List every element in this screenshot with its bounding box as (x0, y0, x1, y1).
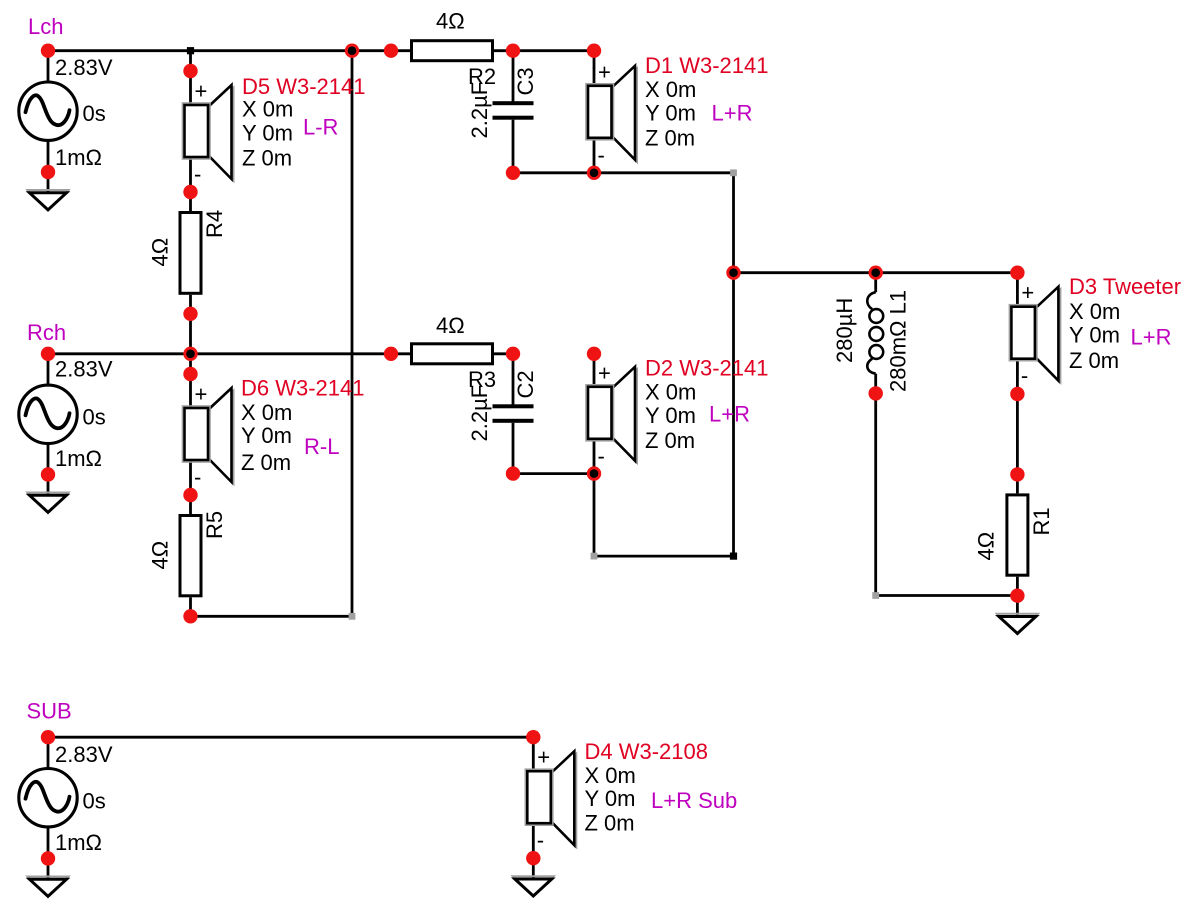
svg-text:+: + (598, 59, 611, 84)
wire D2 to bus bottom (594, 555, 734, 558)
capacitor C2 (493, 354, 534, 474)
svg-text:1mΩ: 1mΩ (55, 830, 102, 855)
svg-text:Y 0m: Y 0m (645, 403, 696, 428)
svg-text:Lch: Lch (28, 14, 63, 39)
svg-text:-: - (1021, 363, 1028, 388)
wire D1 top stub (593, 51, 596, 53)
svg-text:Y 0m: Y 0m (1069, 323, 1120, 348)
svg-text:X 0m: X 0m (585, 763, 636, 788)
svg-text:Y 0m: Y 0m (241, 423, 292, 448)
junction L1 top over pin (871, 268, 880, 277)
ground D4 (513, 858, 554, 897)
svg-text:-: - (194, 162, 201, 187)
voltage source V2 Rch (19, 354, 77, 475)
svg-text:4Ω: 4Ω (974, 532, 999, 561)
resistor R2 (391, 41, 513, 61)
wire D5 stub (189, 51, 192, 71)
svg-text:Y 0m: Y 0m (645, 101, 696, 126)
pin R5 bottom (183, 609, 197, 623)
pin D1 top (587, 44, 601, 58)
svg-text:X 0m: X 0m (241, 400, 292, 425)
svg-text:0s: 0s (83, 789, 106, 814)
svg-text:D5 W3-2141: D5 W3-2141 (242, 74, 366, 99)
svg-text:+: + (1021, 280, 1034, 305)
resistor R1 (1007, 474, 1028, 595)
pin C3 bottom (506, 166, 520, 180)
corner marker bus top (730, 169, 737, 176)
pin R1 top (1010, 467, 1024, 481)
pin R3 left (384, 347, 398, 361)
voltage source V1 Lch (19, 51, 77, 172)
junction Rch-R4 (186, 350, 195, 359)
svg-text:Z 0m: Z 0m (645, 428, 695, 453)
wire D3 to R1 (1016, 394, 1019, 474)
pin wire end at bus branch (red) (726, 266, 740, 280)
corner marker L1 corner (872, 592, 879, 599)
wire L1 down (874, 393, 877, 595)
svg-text:SUB: SUB (27, 699, 72, 724)
speaker D3 (1009, 273, 1060, 394)
pin V1 bottom (41, 165, 55, 179)
svg-text:280µH: 280µH (832, 298, 857, 363)
svg-text:D4 W3-2108: D4 W3-2108 (585, 739, 709, 764)
ground V2 (28, 475, 69, 514)
speaker D2 (586, 353, 637, 474)
wire R2 to D1 top (513, 49, 594, 52)
svg-text:Z 0m: Z 0m (585, 811, 635, 836)
svg-text:1mΩ: 1mΩ (55, 145, 102, 170)
svg-text:+: + (598, 360, 611, 385)
pin V2 bottom (41, 467, 55, 481)
pin R3/C2 (506, 347, 520, 361)
wire D2 down (593, 474, 596, 556)
wire D6 stub (189, 354, 192, 374)
wire Rch rail (48, 352, 391, 355)
junction bus bottom (730, 553, 737, 560)
svg-text:C3: C3 (513, 67, 538, 95)
svg-text:R5: R5 (202, 511, 227, 539)
pin V3 bottom (41, 851, 55, 865)
svg-text:L+R: L+R (709, 402, 750, 427)
svg-text:Z 0m: Z 0m (645, 125, 695, 150)
svg-text:L+R Sub: L+R Sub (651, 788, 737, 813)
pin D6/R5 (183, 488, 197, 502)
svg-text:R1: R1 (1029, 507, 1054, 535)
svg-text:Rch: Rch (27, 320, 66, 345)
svg-text:D3 Tweeter: D3 Tweeter (1069, 274, 1181, 299)
svg-text:0s: 0s (83, 405, 106, 430)
wire C2 bottom to D2 (513, 472, 594, 475)
capacitor C3 (493, 51, 534, 173)
voltage source V3 SUB (19, 737, 77, 858)
speaker D6 (183, 374, 234, 495)
ground V3 (28, 859, 69, 898)
ground V1 (28, 172, 69, 211)
svg-text:+: + (537, 745, 550, 770)
ground R1 (997, 596, 1038, 635)
svg-text:D6 W3-2141: D6 W3-2141 (241, 375, 365, 400)
svg-text:X 0m: X 0m (645, 380, 696, 405)
pin C2 bottom (506, 466, 520, 480)
svg-text:0s: 0s (83, 101, 106, 126)
pin R2/C3 (506, 44, 520, 58)
speaker D1 (586, 52, 637, 173)
pin L1 bottom (869, 386, 883, 400)
speaker D5 (183, 71, 234, 192)
wire C3 bottom to bus (513, 171, 734, 174)
svg-text:X 0m: X 0m (645, 77, 696, 102)
svg-text:X 0m: X 0m (1069, 299, 1120, 324)
svg-text:-: - (598, 142, 605, 167)
wire Lch rail (48, 49, 391, 52)
svg-text:R4: R4 (202, 210, 227, 238)
pin R1 bottom (1010, 589, 1024, 603)
svg-text:L+R: L+R (712, 100, 753, 125)
corner marker D2 wire (591, 553, 598, 560)
svg-text:2.2µF: 2.2µF (467, 82, 492, 139)
svg-text:280mΩ L1: 280mΩ L1 (886, 290, 911, 392)
pin wire end at Rch rail (red) (183, 347, 197, 361)
inductor L1 (867, 273, 883, 394)
junction bus-branch (729, 268, 738, 277)
svg-text:X 0m: X 0m (242, 97, 293, 122)
wire bottom bridge horizontal (191, 615, 353, 618)
pin R2 left (384, 44, 398, 58)
svg-text:D2 W3-2141: D2 W3-2141 (645, 356, 769, 381)
svg-text:L-R: L-R (303, 114, 338, 139)
pin D3 bottom (1010, 387, 1024, 401)
svg-text:Z 0m: Z 0m (241, 450, 291, 475)
pin D5 top (183, 64, 197, 78)
svg-text:-: - (194, 465, 201, 490)
pin D3 top (1010, 266, 1024, 280)
pin V3 top (41, 730, 55, 744)
svg-text:4Ω: 4Ω (148, 541, 173, 570)
svg-text:4Ω: 4Ω (436, 8, 465, 33)
junction Lch-bridge (348, 46, 357, 55)
junction Lch-D5 (187, 47, 194, 54)
svg-text:D1 W3-2141: D1 W3-2141 (645, 53, 769, 78)
wire L1 to R1 bottom (876, 594, 1018, 597)
svg-text:Y 0m: Y 0m (242, 120, 293, 145)
pin D1 bottom (587, 166, 601, 180)
wire bus vertical (732, 173, 735, 556)
svg-text:R-L: R-L (304, 434, 339, 459)
svg-text:1mΩ: 1mΩ (55, 446, 102, 471)
wire SUB rail (48, 736, 533, 739)
svg-text:+: + (195, 382, 208, 407)
pin bridge wire end at Lch rail (345, 44, 359, 58)
svg-text:-: - (598, 443, 605, 468)
wire R4 to Rch rail (189, 314, 192, 354)
pin D6 top (183, 367, 197, 381)
svg-text:+: + (195, 79, 208, 104)
junction D2 bottom over pin (590, 469, 599, 478)
svg-text:L+R: L+R (1131, 324, 1172, 349)
junction D1 bottom over pin (590, 169, 599, 178)
svg-text:2.2µF: 2.2µF (467, 385, 492, 442)
pin D5/R4 (183, 185, 197, 199)
wire branch to tweeter (734, 271, 1018, 274)
svg-text:-: - (537, 828, 544, 853)
pin D4 bottom (526, 851, 540, 865)
resistor R5 (180, 495, 201, 616)
svg-text:C2: C2 (513, 370, 538, 398)
wire bridge vertical (351, 51, 354, 617)
svg-text:4Ω: 4Ω (436, 313, 465, 338)
svg-text:Y 0m: Y 0m (585, 786, 636, 811)
resistor R4 (180, 192, 201, 314)
pin V2 top (41, 347, 55, 361)
pin D2 bottom (587, 466, 601, 480)
corner marker bridge corner (349, 613, 356, 620)
svg-text:2.83V: 2.83V (55, 55, 113, 80)
svg-text:Z 0m: Z 0m (242, 145, 292, 170)
pin R4 bottom (183, 307, 197, 321)
svg-text:Z 0m: Z 0m (1069, 348, 1119, 373)
svg-text:4Ω: 4Ω (148, 238, 173, 267)
pin D2 top (587, 347, 601, 361)
svg-text:2.83V: 2.83V (55, 742, 113, 767)
pin D4 top (526, 730, 540, 744)
pin L1 top (869, 266, 883, 280)
svg-text:2.83V: 2.83V (55, 357, 113, 382)
resistor R3 (391, 344, 513, 364)
speaker D4 (525, 737, 576, 858)
pin V1 top (41, 44, 55, 58)
